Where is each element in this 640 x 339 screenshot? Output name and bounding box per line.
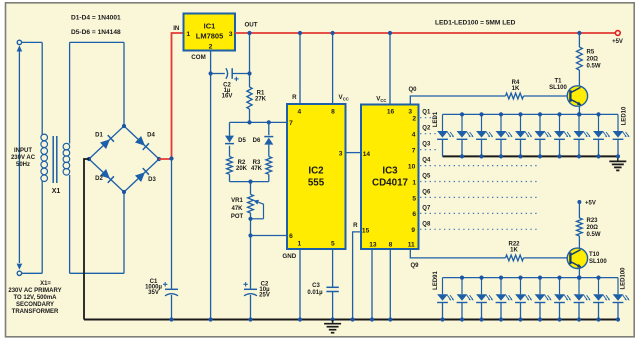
- diode D3: [135, 172, 145, 182]
- svg-text:C3: C3: [312, 283, 320, 289]
- capacitor C1: [165, 288, 178, 290]
- svg-text:IC2: IC2: [308, 166, 324, 177]
- junction: [577, 276, 581, 280]
- junction: [388, 317, 392, 321]
- input terminal top: [17, 40, 21, 44]
- svg-text:LM7805: LM7805: [196, 32, 224, 41]
- counter IC3 CD4017: [361, 105, 419, 250]
- svg-text:IN: IN: [173, 25, 180, 32]
- potentiometer VR1: [248, 194, 254, 213]
- svg-text:6: 6: [412, 211, 416, 218]
- svg-text:1: 1: [412, 179, 416, 186]
- svg-text:Q4: Q4: [422, 158, 431, 164]
- node bridge right: [157, 157, 161, 161]
- svg-text:+5V: +5V: [585, 201, 596, 207]
- svg-text:R22: R22: [508, 241, 520, 247]
- wire: [578, 268, 580, 278]
- wire: [22, 41, 43, 43]
- svg-text:D5-D6 = 1N4148: D5-D6 = 1N4148: [71, 29, 121, 36]
- capacitor C2 1u: [226, 68, 228, 79]
- node bridge bottom: [122, 190, 126, 194]
- junction: [267, 120, 271, 124]
- svg-text:D3: D3: [148, 177, 156, 183]
- junction: [298, 31, 302, 35]
- wire: [250, 182, 252, 195]
- junction: [388, 31, 392, 35]
- svg-text:D6: D6: [253, 138, 261, 144]
- wire: [69, 175, 71, 273]
- svg-text:R: R: [353, 222, 358, 229]
- wire pin8: [332, 33, 334, 104]
- svg-text:INPUT: INPUT: [14, 148, 32, 154]
- svg-text:0.01µ: 0.01µ: [307, 290, 323, 296]
- svg-text:14: 14: [363, 151, 371, 158]
- wire: [524, 257, 571, 259]
- svg-text:4: 4: [297, 109, 301, 116]
- junction: [247, 71, 251, 75]
- junction dots row1: [460, 112, 464, 116]
- svg-text:0.5W: 0.5W: [587, 64, 601, 70]
- wire: [211, 73, 225, 75]
- wire: [171, 295, 173, 320]
- wire: [578, 33, 580, 47]
- svg-text:5: 5: [412, 195, 416, 202]
- wire: [442, 140, 444, 157]
- input terminal bottom: [17, 264, 23, 270]
- terminal +5V: [615, 31, 620, 36]
- wire: [123, 42, 125, 126]
- svg-text:6: 6: [289, 233, 293, 240]
- svg-text:35V: 35V: [148, 290, 159, 296]
- wire red bridge to IC1 IN: [159, 33, 184, 159]
- svg-text:20Ω: 20Ω: [587, 225, 599, 231]
- svg-text:R5: R5: [587, 50, 595, 56]
- wire: [69, 42, 71, 143]
- svg-text:OUT: OUT: [244, 22, 257, 29]
- svg-text:7: 7: [289, 120, 293, 127]
- junction: [209, 71, 213, 75]
- svg-text:230V AC: 230V AC: [11, 155, 36, 161]
- svg-text:50Hz: 50Hz: [16, 162, 30, 168]
- transformer X1 secondary winding: [63, 143, 70, 150]
- wire: [230, 121, 288, 123]
- svg-text:X1=: X1=: [40, 281, 51, 287]
- svg-text:Q3: Q3: [422, 142, 431, 148]
- junction: [370, 317, 374, 321]
- wire red +5V rail: [235, 32, 615, 34]
- svg-text:SL100: SL100: [549, 85, 567, 91]
- svg-text:25V: 25V: [259, 293, 270, 299]
- wire: [229, 146, 231, 157]
- svg-text:Q5: Q5: [422, 174, 431, 180]
- svg-text:11: 11: [408, 241, 415, 248]
- junction: [331, 317, 335, 321]
- svg-text:T1: T1: [554, 78, 562, 84]
- svg-text:Q6: Q6: [422, 189, 431, 195]
- svg-text:1: 1: [297, 241, 301, 248]
- svg-text:8: 8: [389, 241, 393, 248]
- svg-text:CD4017: CD4017: [372, 178, 408, 189]
- svg-text:TRANSFORMER: TRANSFORMER: [12, 309, 59, 315]
- junction: [248, 217, 252, 221]
- junction: [248, 317, 252, 321]
- junction: [298, 317, 302, 321]
- node bridge top: [122, 124, 126, 128]
- wire: [230, 181, 269, 183]
- wire Q0: [410, 96, 505, 105]
- wire: [268, 174, 270, 181]
- junction: [169, 156, 173, 160]
- wire: [268, 145, 270, 157]
- svg-text:27K: 27K: [255, 97, 267, 103]
- timer IC2 555: [287, 104, 346, 249]
- diode D1: [100, 139, 110, 149]
- wire: [229, 174, 231, 181]
- wire: [18, 51, 20, 263]
- wire: [22, 272, 43, 274]
- junction: [248, 180, 252, 184]
- wire: [578, 106, 580, 115]
- junction: [331, 31, 335, 35]
- wire: [578, 202, 580, 218]
- svg-text:IC1: IC1: [204, 22, 216, 31]
- resistor R22: [506, 255, 524, 261]
- wire LED91 anode rail: [443, 277, 619, 279]
- wire pin16: [389, 33, 391, 105]
- capacitor C3: [326, 286, 338, 288]
- svg-text:230V AC PRIMARY: 230V AC PRIMARY: [8, 288, 61, 294]
- svg-text:D5: D5: [238, 138, 246, 144]
- wire: [250, 213, 252, 236]
- svg-text:7: 7: [412, 147, 416, 154]
- svg-text:GND: GND: [282, 253, 296, 260]
- svg-text:SECONDARY: SECONDARY: [16, 302, 54, 308]
- wire: [251, 235, 288, 237]
- wire: [578, 236, 580, 249]
- junction: [577, 31, 581, 35]
- svg-text:9: 9: [411, 227, 415, 234]
- svg-text:5: 5: [331, 241, 335, 248]
- svg-text:IC3: IC3: [382, 166, 398, 177]
- junction: [247, 120, 251, 124]
- svg-text:SL100: SL100: [589, 259, 607, 265]
- wire: [249, 33, 251, 87]
- wire: [250, 236, 252, 289]
- wire pin8 gnd: [389, 249, 391, 320]
- svg-text:8: 8: [331, 109, 335, 116]
- wire pin5: [332, 249, 334, 287]
- svg-text:4: 4: [412, 132, 416, 139]
- resistor R2: [227, 157, 233, 175]
- svg-text:20Ω: 20Ω: [587, 57, 599, 63]
- wire: [41, 181, 43, 273]
- pot wiper: [258, 202, 263, 219]
- svg-text:Q1: Q1: [422, 110, 431, 116]
- svg-text:3: 3: [229, 31, 233, 38]
- svg-text:16V: 16V: [222, 93, 233, 99]
- svg-text:0.5W: 0.5W: [587, 232, 601, 238]
- node bridge left: [87, 157, 91, 161]
- wire: [578, 70, 580, 86]
- junction: [577, 112, 581, 116]
- svg-text:D2: D2: [95, 176, 103, 182]
- wire: [41, 42, 43, 134]
- wire: [232, 73, 249, 75]
- transformer X1 primary winding: [41, 134, 48, 141]
- svg-text:2: 2: [209, 43, 213, 50]
- svg-text:Q8: Q8: [422, 221, 431, 227]
- svg-text:Q9: Q9: [410, 263, 419, 269]
- svg-text:T10: T10: [589, 252, 600, 258]
- svg-text:13: 13: [369, 241, 377, 248]
- junction dots row2: [460, 276, 464, 280]
- svg-text:Q0: Q0: [408, 87, 417, 93]
- terminal +5V 2: [577, 200, 581, 204]
- wire: [171, 159, 173, 289]
- svg-text:555: 555: [308, 178, 325, 189]
- wire LED1 anode rail: [443, 113, 619, 115]
- resistor R23: [577, 218, 583, 236]
- svg-text:47K: 47K: [231, 206, 243, 212]
- junction: [247, 31, 251, 35]
- wire: [210, 51, 212, 320]
- svg-text:+5V: +5V: [612, 39, 623, 45]
- wire: [70, 272, 124, 274]
- diode D5: [225, 136, 234, 143]
- diode D6: [264, 138, 273, 145]
- svg-text:1K: 1K: [510, 248, 518, 254]
- svg-text:LED10: LED10: [621, 106, 627, 125]
- svg-text:TO 12V, 500mA: TO 12V, 500mA: [13, 295, 57, 301]
- ground main: [332, 320, 334, 324]
- wire: [442, 303, 444, 320]
- svg-text:D1-D4 = 1N4001: D1-D4 = 1N4001: [71, 15, 121, 22]
- svg-text:LED100: LED100: [621, 267, 627, 290]
- wire: [524, 95, 571, 97]
- junction: [169, 317, 173, 321]
- capacitor C2 10u: [244, 288, 257, 290]
- svg-text:POT: POT: [231, 214, 244, 220]
- svg-text:LED1-LED100 = 5MM LED: LED1-LED100 = 5MM LED: [435, 20, 516, 27]
- svg-text:CC: CC: [380, 98, 386, 103]
- ground row1: [617, 156, 619, 161]
- svg-text:D4: D4: [147, 133, 155, 139]
- svg-text:1K: 1K: [512, 86, 520, 92]
- dotted wires Q1-Q8: [420, 117, 437, 119]
- junction: [351, 317, 355, 321]
- wire: [250, 295, 252, 320]
- LED91-LED100: [442, 278, 444, 295]
- wire pin1 gnd: [299, 249, 301, 320]
- svg-text:16: 16: [387, 109, 395, 116]
- svg-text:Q2: Q2: [422, 126, 431, 132]
- cathode rail row1: [443, 155, 619, 157]
- wire: [70, 41, 124, 43]
- svg-text:R23: R23: [587, 218, 599, 224]
- wire pin4: [299, 33, 301, 104]
- wire: [332, 292, 334, 320]
- wire Q9: [410, 249, 505, 258]
- resistor R4: [506, 93, 524, 99]
- diode D2: [100, 169, 110, 179]
- svg-text:47K: 47K: [251, 166, 263, 172]
- svg-text:20K: 20K: [236, 166, 248, 172]
- resistor R3: [266, 157, 272, 175]
- svg-text:R: R: [292, 94, 297, 101]
- wire: [123, 192, 125, 273]
- svg-text:3: 3: [339, 150, 343, 157]
- svg-text:VR1: VR1: [231, 198, 243, 204]
- svg-text:3: 3: [408, 109, 412, 116]
- svg-text:X1: X1: [52, 188, 61, 195]
- regulator IC1 LM7805: [184, 14, 236, 51]
- svg-text:LED91: LED91: [433, 271, 439, 290]
- resistor R1: [247, 87, 252, 109]
- svg-text:1: 1: [186, 31, 190, 38]
- wire pin15 reset: [353, 232, 361, 320]
- wire: [229, 122, 231, 135]
- svg-text:15: 15: [362, 227, 370, 234]
- svg-text:CC: CC: [343, 96, 349, 101]
- wire black minus: [84, 159, 89, 320]
- svg-text:2: 2: [412, 116, 416, 123]
- svg-text:Q7: Q7: [422, 205, 431, 211]
- transistor T1 SL100: [567, 86, 587, 106]
- svg-text:R4: R4: [512, 80, 520, 86]
- svg-text:COM: COM: [191, 54, 205, 61]
- wire pin3 to pin14: [346, 152, 362, 154]
- junction: [248, 233, 252, 237]
- svg-text:10: 10: [408, 163, 416, 170]
- diode D4: [135, 136, 145, 146]
- transformer X1 core: [52, 136, 54, 183]
- wire: [268, 122, 270, 135]
- ground rail: [84, 318, 618, 320]
- LED1-LED10: [442, 114, 444, 131]
- wire pin13: [371, 249, 373, 320]
- svg-text:LED1: LED1: [433, 111, 439, 127]
- wire: [249, 109, 251, 122]
- transistor T10 SL100: [567, 248, 587, 268]
- wire: [89, 126, 124, 159]
- resistor R5: [577, 47, 583, 70]
- svg-text:D1: D1: [95, 133, 103, 139]
- junction: [209, 317, 213, 321]
